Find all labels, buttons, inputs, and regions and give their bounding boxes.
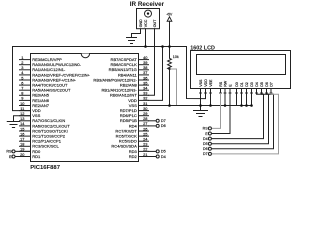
svg-text:RS: RS [203,127,209,131]
svg-text:21: 21 [143,152,147,157]
svg-text:OUT: OUT [153,19,157,27]
svg-text:D6: D6 [161,124,166,128]
svg-text:D5: D5 [203,142,208,146]
svg-text:D0: D0 [235,82,239,87]
svg-text:E: E [9,155,12,159]
svg-text:VEE: VEE [209,79,213,87]
svg-text:VSS: VSS [199,79,203,87]
svg-text:RD2: RD2 [129,154,138,159]
svg-text:D2: D2 [245,82,249,87]
svg-text:IR Receiver: IR Receiver [130,1,165,8]
svg-text:D3: D3 [250,82,254,87]
svg-text:D5: D5 [260,82,264,87]
svg-text:10k: 10k [173,55,179,59]
svg-text:RS: RS [6,150,12,154]
svg-text:D7: D7 [161,119,166,123]
svg-text:D4: D4 [161,155,166,159]
svg-text:D7: D7 [203,152,208,156]
svg-text:RS: RS [219,81,223,87]
svg-text:D1: D1 [240,82,244,87]
svg-text:+5V: +5V [166,13,173,17]
svg-text:RW: RW [223,80,227,87]
svg-text:D6: D6 [265,82,269,87]
svg-text:1602 LCD: 1602 LCD [190,45,215,51]
svg-text:PIC16F887: PIC16F887 [30,165,61,171]
svg-text:D5: D5 [161,150,166,154]
svg-text:D4: D4 [255,82,259,87]
svg-text:D6: D6 [203,147,208,151]
svg-text:VCC: VCC [144,19,148,27]
svg-text:GND: GND [139,19,143,27]
svg-text:RD1: RD1 [32,154,41,159]
svg-text:D4: D4 [203,137,208,141]
svg-text:D7: D7 [269,82,273,87]
svg-text:VDD: VDD [204,79,208,87]
